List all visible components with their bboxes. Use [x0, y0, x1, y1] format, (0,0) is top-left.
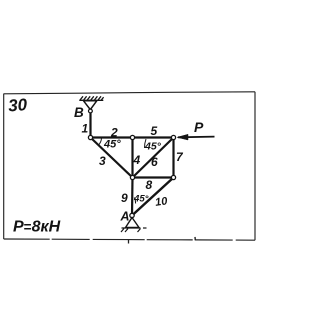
svg-text:2: 2	[110, 126, 118, 140]
member 4 (J2 to J4)	[131, 138, 133, 178]
joint B pin circle	[89, 109, 93, 113]
support A triangle	[126, 218, 140, 228]
svg-text:1: 1	[82, 122, 89, 136]
svg-text:45°: 45°	[144, 141, 162, 153]
svg-text:7: 7	[176, 150, 184, 164]
svg-text:3: 3	[99, 154, 106, 168]
svg-text:45°: 45°	[133, 194, 149, 205]
svg-text:P=8кН: P=8кН	[13, 219, 61, 236]
member 6 (J4 to J3)	[133, 138, 174, 178]
joint J3 circle	[171, 135, 175, 139]
support B hatched ceiling	[79, 96, 103, 100]
frame border of problem box	[4, 92, 256, 240]
svg-text:30: 30	[8, 95, 29, 115]
svg-text:5: 5	[151, 124, 158, 138]
svg-text:4: 4	[133, 153, 141, 167]
joint J5 circle	[171, 175, 175, 179]
joint J4 circle	[130, 175, 134, 179]
svg-text:P: P	[194, 119, 204, 135]
svg-text:9: 9	[121, 191, 128, 205]
angle arc 45 deg at J1	[98, 138, 101, 146]
member 3 (J1 to J4)	[91, 138, 133, 178]
svg-text:10: 10	[154, 195, 169, 209]
member 7 (J3 to J5)	[172, 138, 174, 178]
joint J2 circle	[130, 135, 134, 139]
member 9 (J4 to A)	[131, 178, 134, 216]
member 8 (J4 to J5)	[133, 176, 174, 178]
support A ground line with hatching	[121, 228, 147, 232]
svg-text:8: 8	[146, 178, 153, 192]
member 2 (J1 to J2)	[91, 136, 133, 138]
member 5 (J2 to J3)	[133, 136, 174, 138]
force P arrow	[177, 134, 215, 140]
joint A circle	[130, 213, 134, 217]
svg-text:45°: 45°	[103, 139, 121, 151]
tick mark on bottom border left	[128, 240, 130, 244]
support B triangle	[84, 101, 97, 110]
joint J1 circle	[88, 135, 92, 139]
member 1 (B to J1)	[89, 112, 91, 138]
svg-text:B: B	[74, 105, 84, 120]
angle arc 45 deg at J3	[144, 139, 146, 148]
tick mark on bottom border right	[194, 237, 196, 240]
svg-text:A: A	[120, 210, 130, 224]
angle arc 45 deg at A	[134, 198, 135, 204]
member 10 (J5 to A)	[132, 178, 174, 216]
svg-text:6: 6	[151, 155, 158, 169]
